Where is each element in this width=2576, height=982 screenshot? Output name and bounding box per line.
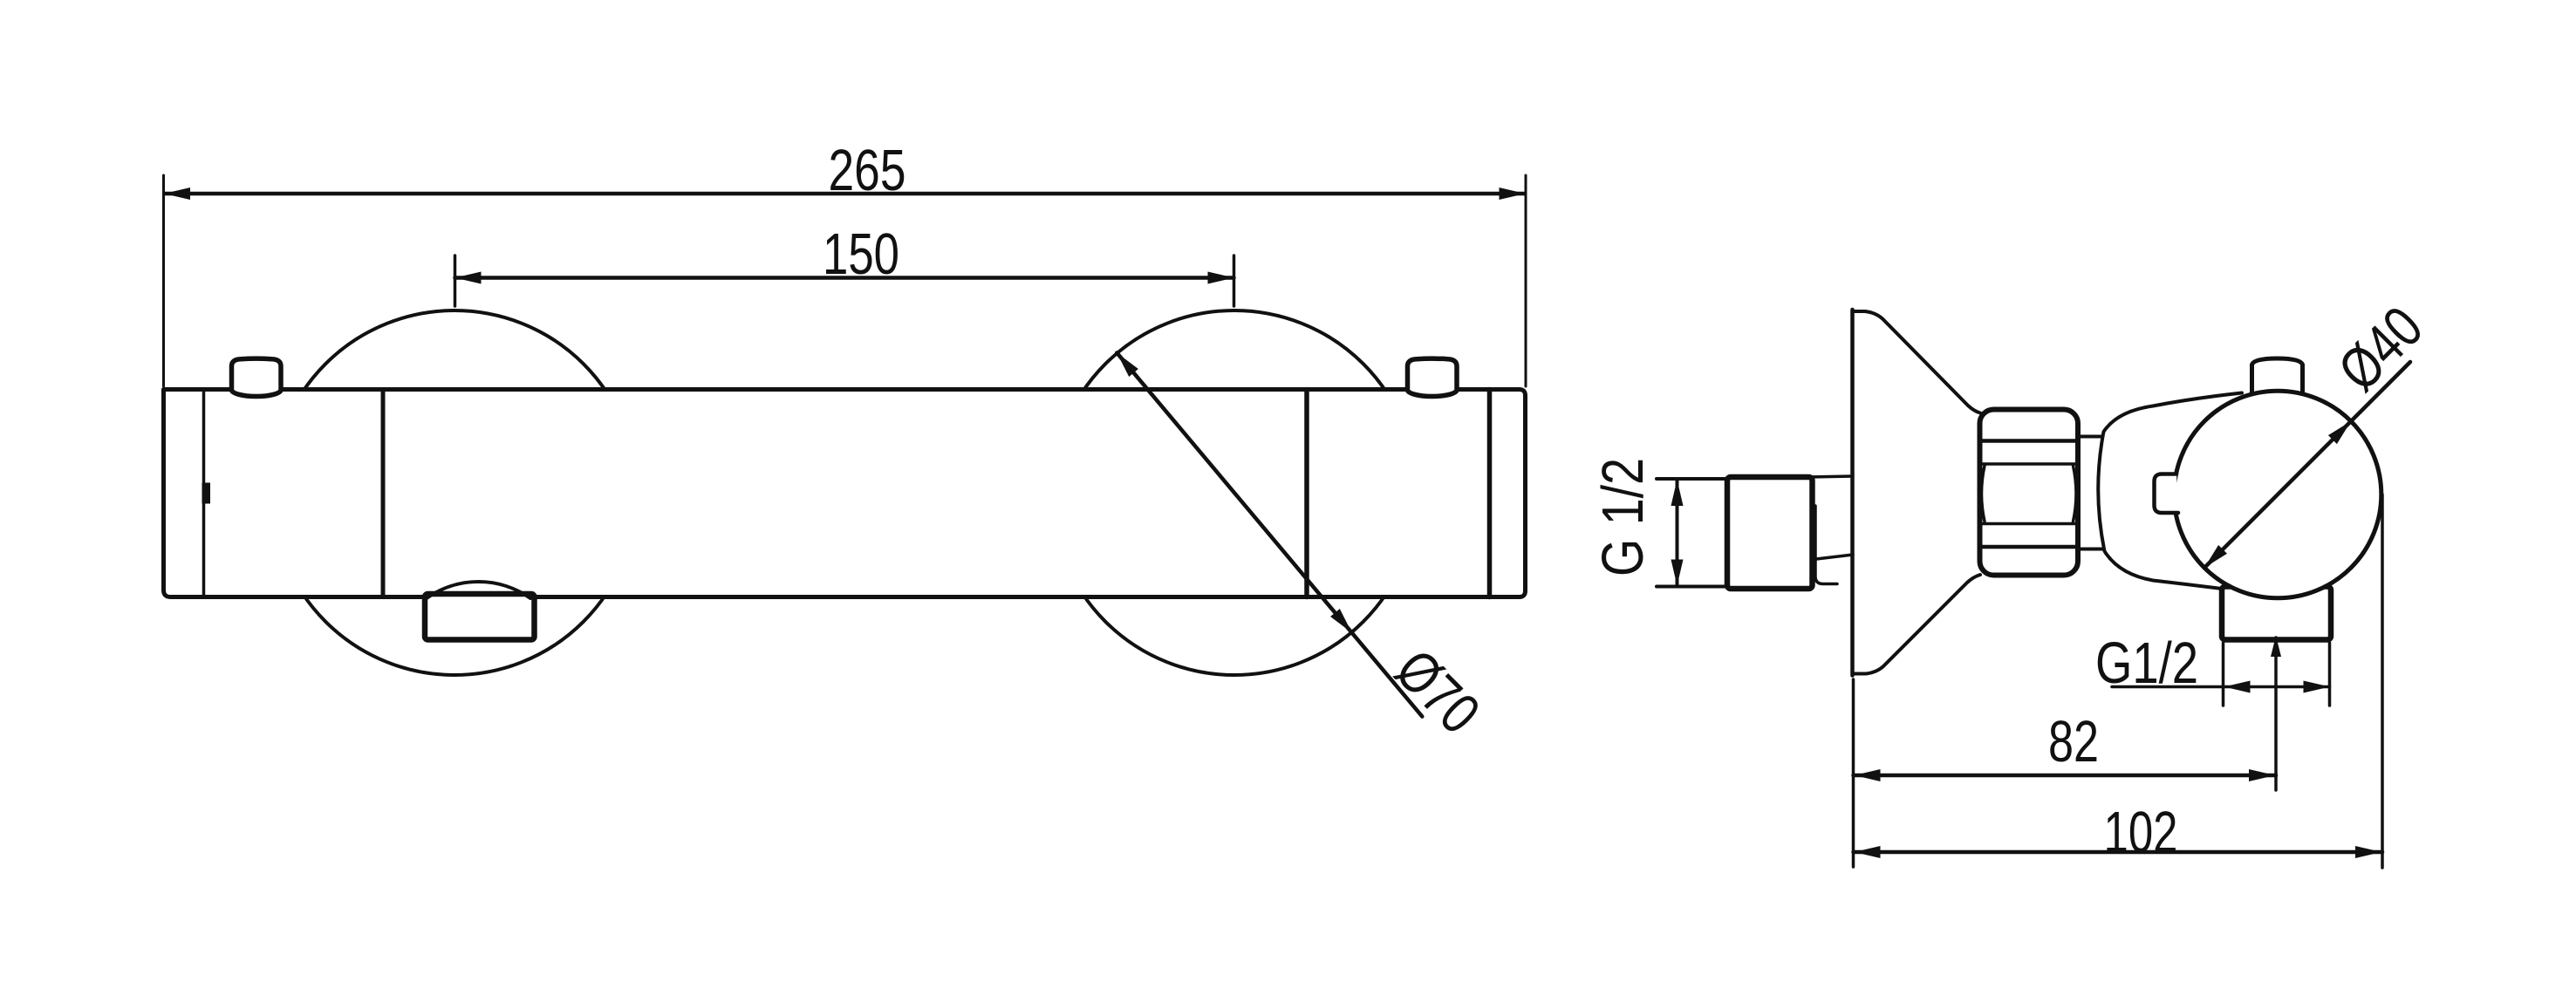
pipe bottom slope xyxy=(1816,555,1853,559)
dimension Ø40 arrow lower xyxy=(2204,545,2227,568)
dimension Ø70 arrow lower xyxy=(1330,609,1352,633)
valve body xyxy=(2098,393,2242,591)
dimension 150 extension tick right xyxy=(1233,256,1236,306)
nut facet line 3 xyxy=(1981,522,2077,526)
dimension 265 arrow left xyxy=(164,188,190,200)
dimension 265 line xyxy=(165,192,1525,196)
temperature button tab xyxy=(2155,474,2179,514)
dimension G1/2 extension left xyxy=(2222,643,2225,706)
G 1/2 arrow up xyxy=(1671,480,1684,506)
dimension 82 arrow right xyxy=(2249,769,2275,781)
dimension 82 line xyxy=(1854,774,2277,778)
dimension Ø40 diagonal line xyxy=(2204,362,2410,568)
svg-text:150: 150 xyxy=(823,222,899,287)
dimension 150 extension tick left xyxy=(454,256,457,306)
dimension 102 line xyxy=(1854,850,2383,855)
dimension 265 extension line left xyxy=(162,175,165,386)
temperature stop tick xyxy=(202,483,211,504)
nut facet line 4 xyxy=(1981,545,2077,549)
outlet centerline xyxy=(2274,638,2278,790)
handle disc Ø40 (circle) xyxy=(2174,391,2381,598)
dimension 150 line xyxy=(455,276,1234,280)
centerline arrow xyxy=(2271,636,2281,657)
nut facet line 1 xyxy=(1981,439,2077,443)
nut facet line 2 xyxy=(1981,462,2077,466)
handle knob (side view, behind circle) xyxy=(2252,358,2303,397)
right cap boundary xyxy=(1304,390,1309,597)
hex nut xyxy=(1980,410,2079,576)
dimension G1/2 extension right xyxy=(2328,643,2332,706)
side outlet nut G 1/2 xyxy=(1727,477,1813,589)
knob top-right xyxy=(1408,358,1458,396)
dimension G1/2 leader line xyxy=(2112,685,2330,689)
pipe flange edge xyxy=(1815,506,1837,584)
G 1/2 arrow down xyxy=(1671,560,1684,586)
svg-text:G 1/2: G 1/2 xyxy=(1590,458,1656,576)
escutcheon cone top edge xyxy=(1853,311,1981,413)
knob top-left xyxy=(232,358,282,396)
svg-text:102: 102 xyxy=(2104,800,2178,865)
escutcheon cone bottom edge xyxy=(1853,575,1981,674)
G 1/2 tick top xyxy=(1657,477,1725,481)
left cap boundary xyxy=(381,390,386,597)
G 1/2 vertical dimension line xyxy=(1676,479,1679,587)
connector line top xyxy=(2078,435,2106,439)
dimension 265 arrow right xyxy=(1500,188,1526,200)
dimension Ø70 arrow upper xyxy=(1117,353,1138,378)
dimension G1/2 arrow right xyxy=(2304,681,2330,693)
dimension 102 arrow right xyxy=(2355,846,2381,858)
bar right end inner line xyxy=(1487,390,1493,597)
dimension 82 arrow left xyxy=(1855,769,1881,781)
dimension 82/102 extension left xyxy=(1852,679,1855,867)
dimension 102 extension right xyxy=(2381,494,2384,868)
svg-text:82: 82 xyxy=(2048,709,2099,774)
svg-text:G1/2: G1/2 xyxy=(2095,631,2198,696)
dimension 150 arrow left xyxy=(455,272,482,284)
svg-text:265: 265 xyxy=(829,138,906,203)
mixer bar body xyxy=(164,390,1526,597)
dimension G1/2 arrow left xyxy=(2224,681,2251,693)
rosette circle right (Ø70) xyxy=(1052,310,1417,675)
shower outlet nut (front view) xyxy=(425,594,535,640)
dimension 102 arrow left xyxy=(1855,846,1881,858)
G 1/2 tick bottom xyxy=(1657,585,1725,589)
connector line bottom xyxy=(2078,548,2106,551)
pipe top line xyxy=(1807,476,1853,477)
rosette circle left (Ø70) xyxy=(272,310,637,675)
nut middle facet left arc xyxy=(1982,466,1985,522)
shower outlet top arc xyxy=(427,582,530,598)
bottom outlet nut (side view) xyxy=(2222,587,2331,640)
dimension Ø70 diagonal line xyxy=(1117,353,1422,717)
dimension 150 arrow right xyxy=(1208,272,1234,284)
bar left end inner line xyxy=(202,390,206,597)
nut middle facet right arc xyxy=(2074,466,2077,522)
dimension 265 extension line right xyxy=(1525,175,1527,386)
wall plate xyxy=(1850,310,1855,676)
dimension Ø40 arrow upper xyxy=(2328,421,2351,444)
